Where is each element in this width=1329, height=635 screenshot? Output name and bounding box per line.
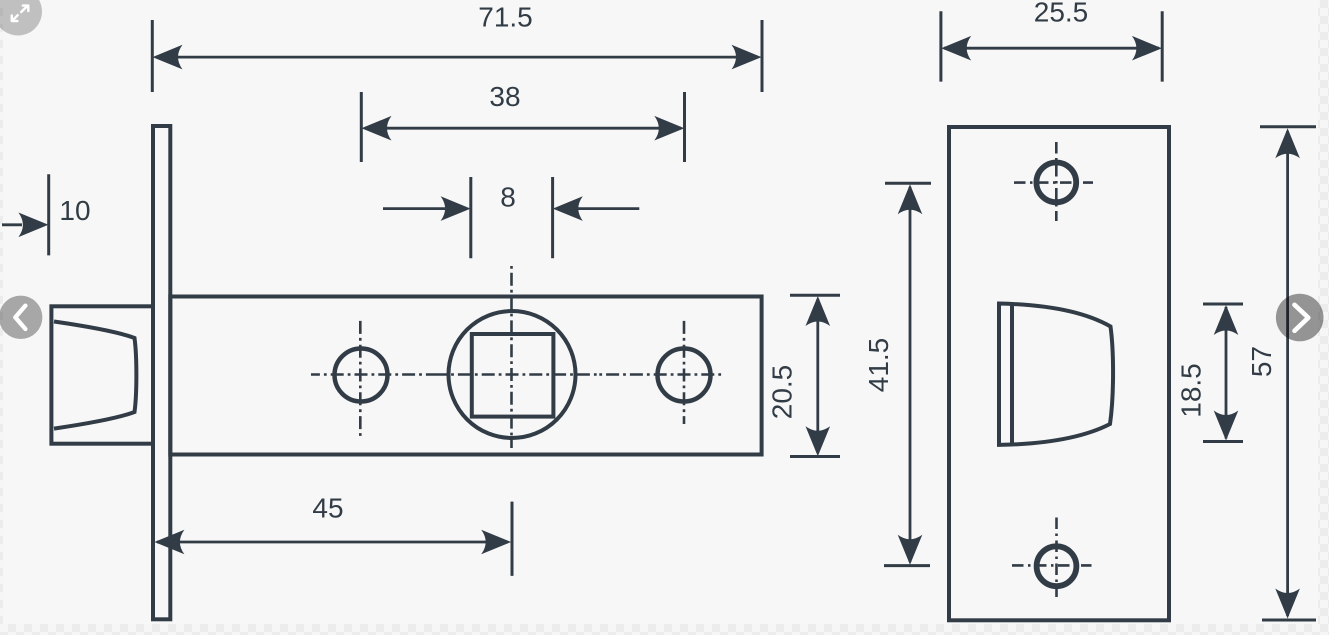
- latch bolt curved face (side view): [54, 322, 136, 429]
- svg-text:45: 45: [312, 492, 343, 523]
- centre line vertical left hole: [359, 317, 362, 437]
- dimension 25.5: [941, 0, 1162, 82]
- dimension 41.5: [863, 183, 931, 565]
- svg-text:20.5: 20.5: [767, 365, 798, 420]
- faceplate front view plate: [949, 127, 1169, 620]
- dimension 45: [154, 492, 512, 576]
- bottom screw hole (front view): [1037, 546, 1077, 586]
- svg-text:10: 10: [59, 195, 90, 226]
- dimension 8: [383, 177, 639, 258]
- latch bolt cutout (front view): [999, 304, 1113, 445]
- dimension 18.5: [1176, 304, 1244, 442]
- next button: [1276, 294, 1324, 342]
- top hole centre lines: [1014, 142, 1093, 221]
- svg-text:71.5: 71.5: [478, 1, 533, 32]
- svg-text:25.5: 25.5: [1034, 0, 1089, 27]
- svg-text:41.5: 41.5: [863, 338, 894, 393]
- dimension 38: [361, 81, 684, 162]
- prev button: [0, 296, 42, 339]
- dimension 57: [1246, 127, 1316, 620]
- latch bolt outer box (side view): [51, 306, 153, 443]
- latch body rectangle: [170, 297, 761, 455]
- bottom hole centre lines: [1012, 518, 1092, 598]
- spindle boss circle (side view): [449, 311, 576, 438]
- expand button: [0, 0, 42, 36]
- spindle square hole: [472, 334, 554, 417]
- top screw hole (front view): [1036, 163, 1076, 203]
- svg-text:8: 8: [500, 181, 516, 212]
- faceplate side view bar: [153, 126, 170, 619]
- dimension 10: [2, 174, 91, 255]
- dimension 20.5: [767, 295, 841, 456]
- follower hole right (side view): [658, 349, 711, 402]
- svg-text:18.5: 18.5: [1176, 363, 1207, 418]
- centre line horizontal (side view): [311, 373, 723, 376]
- svg-text:57: 57: [1246, 346, 1277, 377]
- svg-text:38: 38: [489, 81, 520, 112]
- follower hole left (side view): [335, 349, 388, 402]
- centre line vertical right hole: [683, 320, 686, 424]
- centre line vertical spindle: [510, 266, 513, 448]
- dimension 71.5: [152, 1, 762, 92]
